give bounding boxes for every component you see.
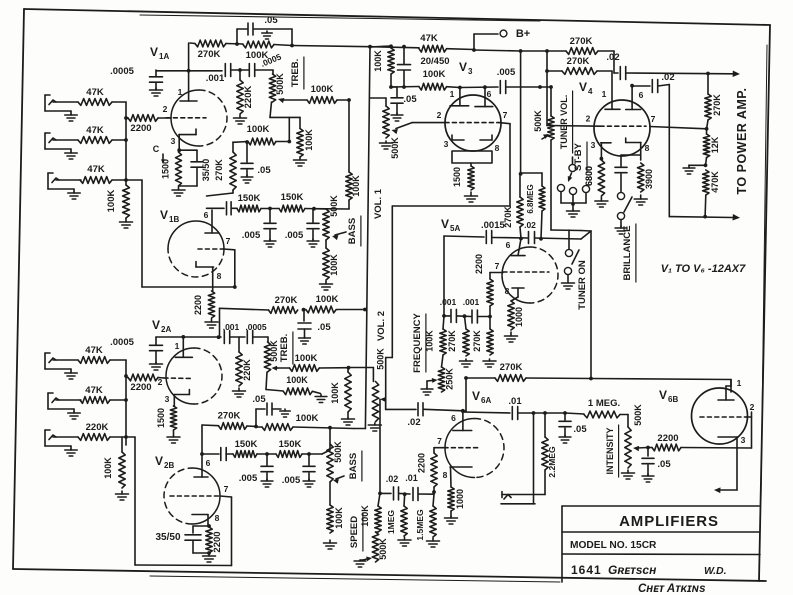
svg-text:35/50: 35/50 <box>155 532 180 543</box>
svg-text:100K: 100K <box>246 50 269 61</box>
svg-text:V: V <box>150 45 158 59</box>
capacitor .005 bass b <box>285 209 319 247</box>
svg-text:2.2MEG: 2.2MEG <box>547 446 557 478</box>
wire VOL1 bus <box>363 47 370 429</box>
capacitor .005 bass2 a <box>239 454 273 487</box>
triode V1B <box>168 221 224 277</box>
capacitor 35/50 V2B <box>155 526 209 553</box>
svg-text:100K: 100K <box>373 50 383 72</box>
speed caps .02 .01 <box>378 473 434 501</box>
svg-text:100K: 100K <box>304 129 314 151</box>
tube V5A label <box>441 217 505 233</box>
svg-text:6: 6 <box>506 240 511 250</box>
V2A cathode pin 3 <box>165 390 190 406</box>
svg-text:270K: 270K <box>198 49 221 60</box>
svg-text:250K: 250K <box>445 368 455 390</box>
svg-text:270K: 270K <box>447 330 457 352</box>
resistor 47K (J5) <box>80 385 110 403</box>
V3 plate pin 6 <box>475 87 493 107</box>
resistor 3900 V4 <box>634 163 654 205</box>
resistor 100K ch2 mid <box>256 413 354 430</box>
svg-text:100K: 100K <box>330 382 340 404</box>
svg-text:1MEG: 1MEG <box>386 510 396 534</box>
svg-text:3: 3 <box>741 435 746 445</box>
resistor 270K plate V1A <box>190 40 226 60</box>
wire V6B pin2 loop <box>714 412 752 493</box>
svg-text:6B: 6B <box>668 395 678 404</box>
svg-text:2: 2 <box>750 402 755 412</box>
svg-text:500K: 500K <box>269 340 279 362</box>
resistor 100K below bass2 <box>324 482 345 549</box>
svg-text:ST-BY: ST-BY <box>573 142 584 171</box>
label TREB. ch2 <box>279 332 293 364</box>
svg-text:47K: 47K <box>86 87 104 98</box>
svg-text:TO POWER AMP.: TO POWER AMP. <box>735 88 749 195</box>
capacitor .05 feedback top <box>235 15 292 46</box>
resistor 270K ch2 mid <box>202 411 258 430</box>
svg-text:8: 8 <box>215 513 220 523</box>
resistor 6800 V4 <box>584 160 608 207</box>
capacitor .02 out a <box>598 51 626 80</box>
svg-text:2200: 2200 <box>657 433 678 444</box>
resistor 2200 V6B <box>648 433 752 451</box>
resistor 1000 V5A <box>505 297 525 342</box>
capacitor .01 V6A out <box>462 396 567 420</box>
svg-text:500K: 500K <box>376 348 386 370</box>
V4 grid pin 2 <box>547 114 646 127</box>
node C cathode <box>153 144 165 164</box>
resistor 100K (input shunt ch1) <box>106 185 129 218</box>
capacitor .02 tuner <box>524 220 536 244</box>
svg-text:20/450: 20/450 <box>420 56 449 67</box>
svg-text:150K: 150K <box>238 193 261 204</box>
svg-text:.001: .001 <box>223 322 240 332</box>
svg-text:1: 1 <box>178 87 183 97</box>
svg-text:INTENSITY: INTENSITY <box>605 427 615 474</box>
svg-text:TREB.: TREB. <box>290 59 301 88</box>
svg-text:8: 8 <box>443 470 448 480</box>
svg-text:BASS: BASS <box>347 218 358 244</box>
wire ch2 loop <box>126 437 232 566</box>
svg-text:V: V <box>579 80 587 94</box>
svg-text:.02: .02 <box>606 52 619 63</box>
svg-text:.0015: .0015 <box>481 220 505 231</box>
input jack J2 <box>45 133 78 159</box>
svg-text:220K: 220K <box>86 422 109 433</box>
ground 1500 V1A <box>172 187 185 196</box>
svg-text:100K: 100K <box>296 413 319 424</box>
resistor 100K ch2 shunt <box>103 437 129 500</box>
svg-text:6: 6 <box>206 458 211 468</box>
tube V4 label <box>579 80 593 96</box>
svg-text:47K: 47K <box>85 345 103 356</box>
svg-text:6A: 6A <box>481 396 491 405</box>
svg-text:.005: .005 <box>282 475 301 486</box>
resistor 1MEG intensity <box>565 398 628 418</box>
triode V1A <box>171 90 227 146</box>
capacitor .05 V6B <box>642 448 671 483</box>
vol2 wiper arrow <box>380 397 386 493</box>
intensity wiper arrow <box>633 446 650 452</box>
tube V6A label <box>472 389 491 405</box>
bass2 wiper arrow <box>333 476 344 484</box>
pot 500K tuner vol <box>533 87 554 140</box>
svg-text:VOL. 1: VOL. 1 <box>373 188 384 219</box>
resistor 100K ch2 plate <box>302 294 339 313</box>
capacitor .001 b <box>457 297 490 323</box>
svg-text:270K: 270K <box>570 36 593 47</box>
resistor 12K <box>703 129 720 166</box>
svg-text:3: 3 <box>468 67 473 76</box>
wire 270K down to V6A <box>463 378 466 411</box>
svg-text:100K: 100K <box>351 175 361 197</box>
svg-text:2200: 2200 <box>130 123 151 134</box>
label 6800 stby <box>584 166 594 186</box>
svg-text:.05: .05 <box>573 424 587 435</box>
svg-text:150K: 150K <box>235 439 258 450</box>
svg-text:.0005: .0005 <box>110 337 134 348</box>
svg-text:6: 6 <box>639 90 644 100</box>
resistor 100K treb2 bottom <box>266 372 327 403</box>
resistor 47K (J2) <box>78 125 112 143</box>
svg-text:.001: .001 <box>206 73 225 84</box>
svg-text:47K: 47K <box>86 125 104 136</box>
svg-text:.02: .02 <box>407 417 420 428</box>
tube V2A label <box>152 318 171 334</box>
tube V1A label <box>150 45 169 61</box>
svg-text:47K: 47K <box>87 164 105 175</box>
svg-text:1000: 1000 <box>514 307 524 327</box>
capacitor .0005 ch2 <box>110 337 162 370</box>
V5A plate pin 6 <box>506 239 525 256</box>
svg-text:.02: .02 <box>386 474 399 484</box>
capacitor .001 coupling <box>206 64 249 85</box>
svg-text:100K: 100K <box>334 507 344 529</box>
svg-text:6: 6 <box>204 210 209 220</box>
resistor 270K plate load <box>705 74 722 129</box>
label FREQUENCY <box>412 313 426 373</box>
svg-text:.05: .05 <box>403 94 417 105</box>
V3 grid pin 2 <box>437 110 499 123</box>
capacitor .0015 <box>444 231 591 244</box>
resistor 1500 V3 cathode <box>452 163 478 202</box>
svg-text:1000: 1000 <box>455 489 465 509</box>
svg-text:.01: .01 <box>405 473 418 483</box>
triode V3 <box>445 95 501 151</box>
resistor 100K plate V1A <box>226 41 294 61</box>
resistor 150K bass b <box>279 192 326 212</box>
V1A cathode pin 3 <box>171 129 196 152</box>
svg-text:2A: 2A <box>161 325 171 334</box>
svg-text:V: V <box>152 318 160 332</box>
svg-text:220K: 220K <box>242 359 252 381</box>
wire J1-J3 bus <box>112 102 126 185</box>
input jack J4 <box>45 353 78 379</box>
resistor 47K (J4) <box>78 345 110 363</box>
title block box <box>562 506 760 582</box>
wire bus 591 tuner <box>590 231 592 379</box>
svg-text:6: 6 <box>451 413 456 423</box>
svg-text:2200: 2200 <box>193 295 203 315</box>
capacitor .02 V6A in <box>386 399 465 428</box>
svg-text:500K: 500K <box>533 110 543 132</box>
svg-text:6800: 6800 <box>584 166 594 186</box>
tube V6B label <box>659 388 678 404</box>
capacitor .05 ch2 mid <box>252 394 290 427</box>
label BRILLANCE <box>622 224 636 282</box>
resistor 2.2MEG <box>542 411 557 494</box>
tuner vol wiper arrow <box>542 134 549 139</box>
V4 plate pin 1 <box>602 71 620 109</box>
svg-text:100K: 100K <box>311 84 334 95</box>
output jack <box>501 492 545 504</box>
svg-text:270K: 270K <box>218 411 241 422</box>
input jack J1 <box>45 95 78 121</box>
V2B plate pin 6 <box>194 458 211 477</box>
svg-text:500K: 500K <box>378 538 388 560</box>
wire bus 525 down <box>519 51 523 176</box>
bass wiper arrow <box>332 232 346 240</box>
V3 plate pin 1 <box>450 88 469 106</box>
wire .0015 down <box>442 236 446 318</box>
resistor 47K (J1) <box>78 87 112 105</box>
svg-text:7: 7 <box>224 484 229 494</box>
svg-text:150K: 150K <box>279 439 302 450</box>
svg-text:100K: 100K <box>295 353 318 364</box>
capacitor .001 a <box>440 297 457 322</box>
svg-text:V: V <box>472 389 480 403</box>
svg-text:6: 6 <box>487 89 492 99</box>
V4 pin 7 wire <box>650 114 708 131</box>
capacitor .005 V3 out <box>460 67 553 94</box>
svg-text:FREQUENCY: FREQUENCY <box>412 313 423 373</box>
V3 pin 7 wire to VOL2 <box>386 110 510 409</box>
capacitor .001 ch2 <box>223 322 240 344</box>
svg-text:.005: .005 <box>497 67 516 78</box>
svg-text:1500: 1500 <box>161 159 171 179</box>
capacitor coupling bass <box>207 202 238 215</box>
svg-text:7: 7 <box>437 436 442 446</box>
resistor 100K below bass pot <box>320 240 340 290</box>
resistor 100K shunt mid <box>294 117 315 166</box>
wire vol2 riser <box>337 310 365 429</box>
resistor 1500 V2A <box>156 406 180 443</box>
V6A plate pin 6 <box>451 412 472 431</box>
capacitor .05 filter <box>391 87 417 121</box>
V2B grid box <box>220 496 232 566</box>
svg-text:Gʀᴇᴛsᴄʜ: Gʀᴇᴛsᴄʜ <box>608 563 657 577</box>
svg-text:1500: 1500 <box>452 167 462 187</box>
resistor 270K to V6A <box>464 362 593 381</box>
wire to V1B cathode loop <box>126 180 235 287</box>
svg-text:8: 8 <box>645 143 650 153</box>
tube V2B label <box>155 454 174 470</box>
V3 grid wire to VOL1 wiper <box>392 123 446 135</box>
wire output bottom <box>669 214 740 221</box>
svg-text:270K: 270K <box>214 159 224 181</box>
label TUNER ON <box>577 260 588 310</box>
svg-text:1.5MEG: 1.5MEG <box>415 509 425 541</box>
resistor 1500 V1A cathode <box>161 152 182 186</box>
svg-text:.001: .001 <box>463 297 480 307</box>
pot 500K intensity <box>622 404 644 479</box>
svg-text:2: 2 <box>163 104 168 114</box>
svg-text:470K: 470K <box>710 171 720 193</box>
svg-text:VOL. 2: VOL. 2 <box>376 311 387 341</box>
svg-text:V: V <box>160 208 168 222</box>
svg-text:500K: 500K <box>329 195 339 217</box>
resistor 47K (J3) <box>80 164 112 183</box>
svg-text:MODEL NO. 15CR: MODEL NO. 15CR <box>570 540 657 551</box>
resistor 100K treble out <box>307 84 351 103</box>
triode V2A <box>166 348 222 404</box>
svg-text:.05: .05 <box>317 322 331 333</box>
svg-text:.001: .001 <box>440 297 457 307</box>
svg-text:.05: .05 <box>252 394 266 405</box>
svg-text:BRILLANCE: BRILLANCE <box>622 226 633 281</box>
svg-text:V₁ TO V₆ -12AX7: V₁ TO V₆ -12AX7 <box>661 263 746 275</box>
capacitor .0005 ch2 coupling <box>230 322 268 344</box>
terminal B+ <box>472 28 530 52</box>
input jack J3 <box>48 173 81 199</box>
triode V6A <box>445 419 504 478</box>
svg-text:150K: 150K <box>281 192 304 203</box>
resistor 2200 V1B cathode <box>193 291 218 328</box>
svg-text:2: 2 <box>158 377 163 387</box>
resistor 2200 V6A <box>417 448 438 494</box>
capacitor 20/450 filter <box>398 47 450 89</box>
ground 100K ch1 <box>120 218 133 228</box>
svg-text:8: 8 <box>505 286 510 296</box>
capacitor .05 V6A <box>559 413 587 443</box>
resistor 47K B+ feed <box>370 33 474 52</box>
svg-text:4: 4 <box>588 87 593 96</box>
svg-text:270K: 270K <box>567 56 590 67</box>
svg-text:7: 7 <box>503 110 508 120</box>
pot 250K freq <box>438 367 454 392</box>
triode V5A <box>502 247 558 303</box>
svg-text:1 MEG.: 1 MEG. <box>588 398 620 409</box>
resistor 470K <box>703 170 720 217</box>
svg-text:1A: 1A <box>159 52 169 61</box>
svg-text:.0005: .0005 <box>110 66 134 77</box>
svg-text:Cʜᴇᴛ Aᴛᴋɪɴs: Cʜᴇᴛ Aᴛᴋɪɴs <box>638 583 706 595</box>
wire B+ rail right <box>474 49 566 53</box>
svg-text:TREB.: TREB. <box>279 334 290 363</box>
svg-text:.005: .005 <box>239 473 258 484</box>
wire plate V2B riser <box>200 425 204 477</box>
input jack J6 <box>45 430 78 456</box>
V6A grid pin 7 <box>434 436 480 448</box>
resistor 270K V1A-V1B coupling <box>207 142 237 196</box>
capacitor 35/50 V1A cathode <box>191 150 211 186</box>
resistor 1000 V6A <box>445 487 466 524</box>
svg-text:.02: .02 <box>661 72 674 83</box>
pot 500K VOL 1 <box>370 98 400 159</box>
resistor 6.8MEG <box>520 173 545 239</box>
svg-text:12K: 12K <box>710 136 720 153</box>
tube V3 label <box>459 60 473 76</box>
svg-text:1: 1 <box>450 89 455 99</box>
svg-text:100K: 100K <box>360 505 370 527</box>
svg-text:.005: .005 <box>285 230 304 241</box>
svg-text:500K: 500K <box>390 137 400 159</box>
svg-text:3: 3 <box>591 140 596 150</box>
switch brillance <box>615 192 632 234</box>
pot 500K BASS2 <box>322 428 343 482</box>
svg-text:100K: 100K <box>329 254 339 276</box>
resistor 2200 grid V2A <box>126 374 164 393</box>
svg-text:3: 3 <box>444 139 449 149</box>
treble wiper arrow <box>278 98 307 103</box>
svg-text:.01: .01 <box>508 396 522 407</box>
freq wiper arrow <box>421 378 437 395</box>
label TUNER VOL. <box>559 91 573 153</box>
svg-text:2200: 2200 <box>417 453 427 473</box>
input jack J5 <box>48 393 81 419</box>
svg-text:TUNER VOL.: TUNER VOL. <box>559 95 569 150</box>
capacitor .05 ch2 plate <box>298 310 331 345</box>
V2B grid pin 7 <box>170 484 229 496</box>
svg-text:220K: 220K <box>243 86 254 109</box>
svg-text:270K: 270K <box>275 295 298 306</box>
pot 500K BASS <box>323 195 339 240</box>
svg-text:7: 7 <box>651 114 656 124</box>
svg-text:2200: 2200 <box>130 382 151 393</box>
V6B plate pin 1 <box>718 378 742 400</box>
resistor 270K ch2 plate <box>220 295 298 337</box>
svg-text:.05: .05 <box>257 165 271 176</box>
speed wiper arrow <box>354 557 372 568</box>
ground tap 12K-470K <box>683 163 707 174</box>
svg-text:7: 7 <box>495 261 500 271</box>
wire to output jack <box>532 411 536 504</box>
label INTENSITY <box>605 425 619 477</box>
svg-text:B+: B+ <box>516 28 530 40</box>
svg-text:270K: 270K <box>472 330 482 352</box>
pot 500K TREB. <box>269 70 300 143</box>
triode V4 <box>594 100 650 156</box>
svg-text:C: C <box>153 144 160 154</box>
wire rail to 270K pair <box>545 49 549 125</box>
svg-text:1: 1 <box>175 341 180 351</box>
svg-text:2: 2 <box>437 110 442 120</box>
svg-text:W.D.: W.D. <box>704 565 727 577</box>
wire V1A top <box>156 69 222 73</box>
resistor 150K bass a <box>237 193 279 212</box>
wire tuner vol to tuner-on bus <box>551 140 591 231</box>
capacitor .0005 coupling <box>249 51 283 76</box>
pot 500K VOL 2 <box>348 368 381 432</box>
V1B cathode pin 8 <box>196 262 222 292</box>
svg-text:47K: 47K <box>85 385 103 396</box>
tube V1B label <box>160 208 179 224</box>
svg-text:1B: 1B <box>169 215 179 224</box>
svg-text:BASS: BASS <box>348 453 359 479</box>
svg-text:100K: 100K <box>103 457 113 479</box>
svg-text:100K: 100K <box>316 294 339 305</box>
wire V2A top <box>156 335 221 339</box>
treb2 wiper arrow <box>272 353 351 371</box>
svg-text:1: 1 <box>737 378 742 388</box>
V1B plate pin 6 <box>204 210 219 233</box>
svg-text:500K: 500K <box>333 441 343 463</box>
svg-text:V: V <box>659 388 667 402</box>
capacitor .02 out b <box>633 72 675 217</box>
V1B grid box <box>223 249 236 289</box>
capacitor brillance <box>615 155 641 192</box>
svg-text:2200: 2200 <box>212 531 223 552</box>
